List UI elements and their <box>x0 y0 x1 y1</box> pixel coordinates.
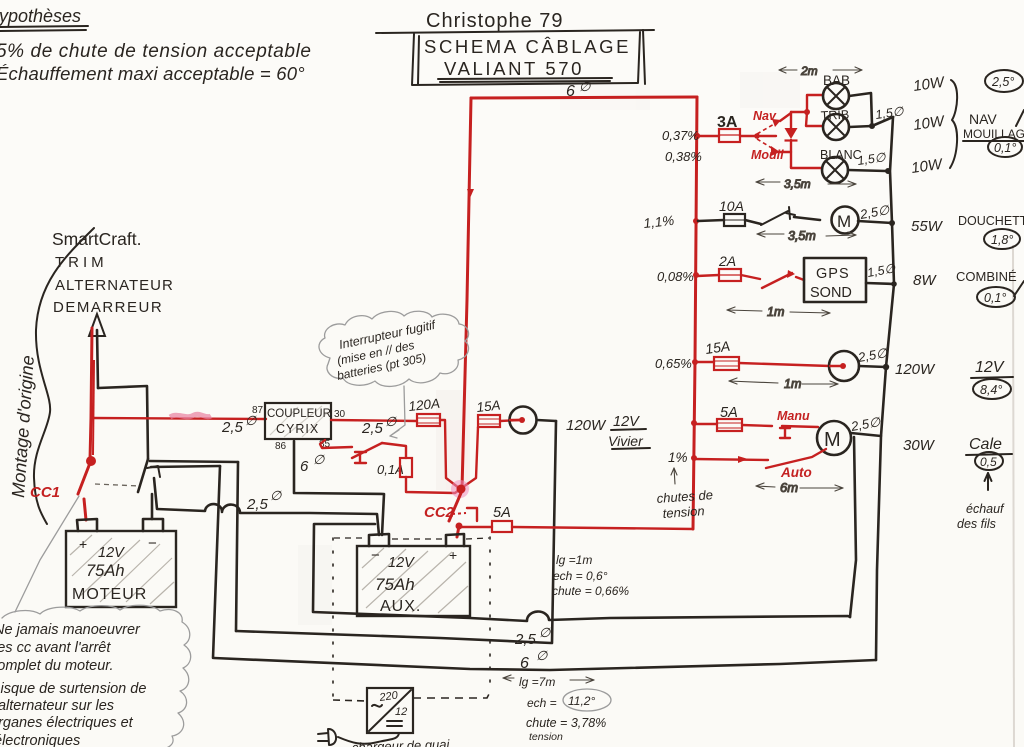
vertical black socket return <box>552 421 556 643</box>
svg-text:ech = 0,6°: ech = 0,6° <box>553 569 608 583</box>
svg-text:SmartCraft.: SmartCraft. <box>52 229 141 249</box>
svg-text:Vivier: Vivier <box>608 433 644 449</box>
switch moteur minus <box>138 459 160 519</box>
label chutes de tension <box>656 487 713 521</box>
dashed quai box right vertical <box>489 537 491 692</box>
svg-text:échauf: échauf <box>966 502 1005 516</box>
svg-text:lg =7m: lg =7m <box>519 675 555 689</box>
fuse F1 3A <box>717 114 740 142</box>
V3 vertical left <box>236 462 238 631</box>
svg-text:TRIM: TRIM <box>55 254 108 271</box>
svg-text:8,4°: 8,4° <box>980 383 1002 397</box>
svg-text:120W: 120W <box>566 417 607 434</box>
dim 3,5m row2 <box>757 229 856 243</box>
fuse F5 5A manu <box>694 419 742 431</box>
svg-text:organes électriques et: organes électriques et <box>0 715 134 731</box>
fuse 120A <box>408 396 441 426</box>
margin slash marks <box>1014 110 1024 296</box>
svg-text:DEMARREUR: DEMARREUR <box>53 299 163 316</box>
svg-text:AUX.: AUX. <box>380 598 421 615</box>
label NAV MOUILLAGE <box>963 111 1024 141</box>
label échauf des fils <box>957 502 1005 531</box>
switch douchette <box>745 207 820 225</box>
svg-text:8W: 8W <box>913 272 937 289</box>
wire M1 to bus <box>858 221 892 223</box>
dashed quai box top <box>334 538 489 539</box>
manu blade to M2 <box>782 426 818 427</box>
svg-text:30W: 30W <box>903 437 936 454</box>
svg-text:2m: 2m <box>800 64 818 78</box>
dashed to transformer right <box>413 692 490 698</box>
CC2 blade <box>449 493 461 521</box>
svg-text:1m: 1m <box>767 305 784 319</box>
svg-text:BLANC: BLANC <box>820 148 862 162</box>
wire red trunk right vertical <box>693 97 697 529</box>
cloud interrupteur fugitif <box>319 311 469 386</box>
svg-text:5% de chute de tension accepta: 5% de chute de tension acceptable <box>0 41 312 62</box>
svg-text:1m: 1m <box>784 377 801 391</box>
title Christophe 79 <box>376 10 654 33</box>
svg-text:COUPLEUR: COUPLEUR <box>267 408 331 420</box>
svg-text:−: − <box>148 535 157 552</box>
svg-text:12V: 12V <box>98 545 125 561</box>
socket 12V right column <box>829 351 859 381</box>
svg-text:0,38%: 0,38% <box>665 149 702 164</box>
node CC1 <box>86 456 96 466</box>
pointer cloud to switch 85 <box>390 386 405 438</box>
arrow up 1% <box>671 468 677 484</box>
svg-text:CYRIX: CYRIX <box>276 422 319 436</box>
svg-text:VALIANT 570: VALIANT 570 <box>444 58 584 79</box>
label Vivier underlined <box>608 433 650 449</box>
node M1 on bus <box>889 220 895 226</box>
label 2,5∅ wire <box>246 488 282 513</box>
dim 1m row4 <box>729 377 838 391</box>
svg-text:6: 6 <box>520 655 529 672</box>
svg-text:électroniques: électroniques <box>0 733 80 747</box>
svg-text:NAV: NAV <box>969 111 997 127</box>
label 12V right underlined <box>971 359 1013 378</box>
svg-text:ech =: ech = <box>527 696 557 710</box>
svg-text:1%: 1% <box>668 450 688 465</box>
red main horizontal to coupleur <box>91 418 266 419</box>
node TRIB/BAB return <box>869 123 875 129</box>
svg-text:0,08%: 0,08% <box>657 269 694 284</box>
svg-text:0,1°: 0,1° <box>994 141 1016 155</box>
wire trunk to auto switch <box>694 459 768 460</box>
switch 85 contact <box>355 452 366 463</box>
svg-text:complet du moteur.: complet du moteur. <box>0 658 114 674</box>
label 2,5∅ left of coupleur <box>221 413 257 436</box>
node trunk row4 <box>692 359 698 365</box>
cloud text interrupteur fugitif <box>336 318 438 383</box>
wire fuse 15A to socket <box>739 363 830 366</box>
svg-text:75Ah: 75Ah <box>375 575 415 594</box>
battery MOTEUR terminals <box>77 519 97 531</box>
svg-text:Manu: Manu <box>777 409 810 423</box>
node trunk manu row <box>691 420 697 426</box>
svg-text:2,5: 2,5 <box>221 419 244 436</box>
svg-text:3A: 3A <box>717 114 738 131</box>
svg-text:2A: 2A <box>718 253 736 269</box>
line A bottom <box>236 631 551 643</box>
circled 0,1° <box>988 137 1022 157</box>
svg-text:lg =1m: lg =1m <box>556 553 592 567</box>
svg-text:DOUCHETTE: DOUCHETTE <box>958 214 1024 228</box>
dashed quai box left vertical <box>332 538 334 698</box>
svg-text:TRIB: TRIB <box>820 108 849 123</box>
wire trunk to fuse 3A <box>697 135 719 137</box>
dashed mechanical link CC1 <box>95 484 140 486</box>
fuse F4 15A <box>696 357 739 370</box>
label ech= 11,2° circled <box>527 689 611 711</box>
wire M2 to bus <box>851 433 881 436</box>
svg-text:3,5m: 3,5m <box>784 177 811 191</box>
wire diode to BLANC <box>791 167 822 168</box>
node CC2 junction <box>457 485 466 494</box>
wire fuse 3A to selector <box>740 135 757 137</box>
svg-text:chute = 0,66%: chute = 0,66% <box>552 584 629 598</box>
svg-text:GPS: GPS <box>816 266 850 282</box>
circled 2,5° <box>985 70 1023 92</box>
node lamp feed <box>804 109 810 115</box>
node GPS on bus <box>891 281 897 287</box>
svg-text:SCHEMA CÂBLAGE: SCHEMA CÂBLAGE <box>424 36 631 57</box>
svg-text:87: 87 <box>252 405 264 416</box>
svg-text:1,8°: 1,8° <box>991 233 1013 247</box>
wire red trunk top horizontal <box>471 97 697 98</box>
paper right edge shadow <box>1013 245 1014 747</box>
svg-text:55W: 55W <box>911 218 944 235</box>
wire 5A fuse to trunk bottom <box>512 527 693 529</box>
node CC2 bottom <box>456 523 463 530</box>
svg-text:6: 6 <box>300 458 309 475</box>
fuse 0,1A <box>377 458 412 477</box>
transformer 220/12 <box>367 688 413 733</box>
node trunk auto row <box>691 455 697 461</box>
svg-text:+: + <box>449 547 457 563</box>
pointer line to CC1 <box>15 496 79 612</box>
pink scribble on wire <box>170 414 211 417</box>
V4 vertical left outer <box>213 466 220 658</box>
wire mouillage contact to diode line <box>779 151 791 153</box>
svg-text:0,5: 0,5 <box>980 455 997 469</box>
red arrow mark on left trunk <box>467 189 474 198</box>
V1 black return from M2 down to line A/L1 <box>850 437 856 617</box>
brace nav group <box>950 80 957 168</box>
svg-text:12V: 12V <box>388 555 415 571</box>
dim 2m row1 <box>779 64 862 78</box>
H1 wire switch to V3 <box>150 461 238 462</box>
lamp BLANC <box>820 148 862 183</box>
svg-text:M: M <box>824 429 841 451</box>
red wire coupleur to 120A fuse <box>331 420 417 421</box>
svg-text:BAB: BAB <box>823 73 850 88</box>
CC1 stub to battery + <box>84 499 86 520</box>
svg-text:CC1: CC1 <box>30 484 60 501</box>
CC2 pink smudge <box>451 480 469 498</box>
wire GPS to bus <box>866 283 894 284</box>
wire node to BAB and TRIB <box>791 95 823 126</box>
svg-text:Nav: Nav <box>753 109 777 123</box>
auto blade <box>766 449 826 468</box>
dim 6m <box>756 480 843 495</box>
title box SCHEMA CABLAGE VALIANT 570 <box>412 30 645 85</box>
wire BLANC return <box>848 170 886 171</box>
svg-text:COMBINÉ: COMBINÉ <box>956 269 1017 284</box>
lamp TRIB <box>820 108 849 140</box>
COUPLEUR CYRIX box <box>252 403 346 452</box>
red stub to AUX plus <box>457 526 459 537</box>
switch GPS <box>741 270 804 288</box>
svg-text:Mouil: Mouil <box>751 148 784 162</box>
svg-text:MOTEUR: MOTEUR <box>72 586 147 603</box>
arrow up to 0,5 <box>985 473 992 490</box>
node trunk row1 <box>694 133 700 139</box>
svg-text:15A: 15A <box>476 398 501 415</box>
svg-text:Hypothèses: Hypothèses <box>0 6 81 26</box>
red wire 85 pin to switch <box>320 440 352 448</box>
svg-text:Cale: Cale <box>969 436 1002 453</box>
svg-text:∅: ∅ <box>270 488 282 503</box>
battery MOTEUR box <box>66 531 176 607</box>
svg-text:∅: ∅ <box>579 79 591 94</box>
brace montage d'origine <box>34 228 94 524</box>
wire 15A fuse to socket vivier <box>500 420 520 421</box>
cloud bottom-left notes <box>2 605 191 747</box>
svg-text:11,2°: 11,2° <box>568 694 595 708</box>
label 12V vivier underlined <box>611 414 646 430</box>
svg-text:1,1%: 1,1% <box>643 213 675 231</box>
circled 0,1° combiné <box>977 287 1015 307</box>
wire nav contact to lamp node <box>780 113 791 121</box>
svg-text:M: M <box>837 212 851 231</box>
wire socket vivier to vertical <box>537 420 556 421</box>
svg-text:chute = 3,78%: chute = 3,78% <box>526 716 606 730</box>
svg-text:120W: 120W <box>895 361 936 378</box>
svg-text:3,5m: 3,5m <box>788 229 816 243</box>
svg-text:0,1°: 0,1° <box>984 291 1006 305</box>
svg-text:Auto: Auto <box>780 465 812 480</box>
bus black right vertical <box>876 117 894 660</box>
H2 wire switch to V4 <box>151 466 220 467</box>
svg-text:des fils: des fils <box>957 517 996 531</box>
heading Hypothèses <box>0 6 88 31</box>
svg-text:6m: 6m <box>780 480 798 495</box>
line B bottom <box>214 658 876 670</box>
svg-text:+: + <box>79 536 87 552</box>
battery AUX box <box>357 546 470 616</box>
svg-text:les cc avant l'arrêt: les cc avant l'arrêt <box>0 640 111 656</box>
selector switch nav/mouillage <box>751 109 784 162</box>
wire to 0,1A fuse <box>382 443 406 458</box>
wire 120A fuse corner down to CC2 junction <box>440 420 459 488</box>
svg-text:∅: ∅ <box>385 414 397 429</box>
fuse F3 2A <box>718 253 741 281</box>
wire BAB return <box>849 93 872 125</box>
svg-text:2,5: 2,5 <box>246 496 269 513</box>
CC2 dashed contact <box>452 513 466 514</box>
wire trunk to fuse 10A <box>698 220 724 221</box>
svg-text:ALTERNATEUR: ALTERNATEUR <box>55 277 174 294</box>
svg-text:∅: ∅ <box>313 452 325 467</box>
circled 1,8° <box>984 229 1020 249</box>
node trunk row3 <box>693 272 699 278</box>
notes text bottom-left <box>0 622 146 747</box>
wire fuse to manu contact <box>742 425 772 426</box>
svg-text:12V: 12V <box>613 414 640 430</box>
switch 85 blade <box>352 443 382 458</box>
svg-text:12V: 12V <box>975 359 1005 376</box>
svg-text:Risque de surtension de: Risque de surtension de <box>0 681 146 697</box>
svg-text:∅: ∅ <box>536 648 548 663</box>
wire socket to bus <box>859 366 886 367</box>
lamp BAB <box>823 73 850 109</box>
wire 15A fuse down to CC2 junction <box>463 427 478 487</box>
black arrow to engine <box>89 314 105 388</box>
svg-text:0,37%: 0,37% <box>662 128 699 143</box>
diode D1 <box>785 112 798 167</box>
svg-text:12: 12 <box>395 706 407 718</box>
circled 8,4° <box>973 379 1011 399</box>
wire red alternator vertical <box>90 328 92 460</box>
wire 2,5 moteur minus to AUX minus <box>154 478 379 535</box>
fuse F2 10A <box>719 198 745 226</box>
label 6∅ pin86 <box>300 452 325 475</box>
motor M1 douchette <box>832 207 859 234</box>
wire 0,1A fuse to CC2 junction <box>406 477 459 493</box>
svg-text:Échauffement maxi acceptable =: Échauffement maxi acceptable = 60° <box>0 63 305 84</box>
svg-text:∅: ∅ <box>539 625 551 640</box>
battery AUX terminals <box>369 534 389 546</box>
circled 0,5 <box>975 452 1003 470</box>
socket vivier <box>510 407 537 434</box>
dim 3,5m row1 <box>756 177 856 191</box>
label lg=1m ech chute pencil <box>552 553 629 598</box>
fuse 15A vivier <box>476 398 501 427</box>
svg-text:SOND: SOND <box>810 285 852 301</box>
CC1 blade <box>78 463 90 494</box>
node BLANC on bus <box>885 168 891 174</box>
node socket on bus <box>883 364 889 370</box>
svg-text:2,5: 2,5 <box>361 420 384 437</box>
label 2,5∅ bottom <box>514 625 551 648</box>
wire 86 pin down to AUX minus <box>294 441 384 535</box>
svg-text:tension: tension <box>529 731 563 743</box>
svg-text:tension: tension <box>662 503 705 521</box>
svg-text:75Ah: 75Ah <box>86 562 125 580</box>
svg-text:−: − <box>371 547 380 564</box>
manu contact symbol <box>780 428 790 438</box>
dim lg=7m pencil <box>503 675 594 683</box>
label 6∅ top <box>566 79 591 100</box>
node trunk row2 <box>693 218 699 224</box>
svg-text:5A: 5A <box>493 505 511 521</box>
paper smudges <box>298 72 800 625</box>
svg-text:6: 6 <box>566 83 575 100</box>
dim 1m row3 <box>727 305 830 319</box>
svg-text:Christophe 79: Christophe 79 <box>426 10 564 32</box>
GPS SOND box <box>804 258 866 302</box>
svg-text:10A: 10A <box>719 198 744 214</box>
svg-text:86: 86 <box>275 441 287 452</box>
motor M2 cale <box>817 421 851 455</box>
wire return to bus top <box>872 117 893 126</box>
fuse 5A aux <box>492 505 512 532</box>
label 6∅ bottom <box>520 648 548 672</box>
wire CC2 to 5A fuse <box>461 526 492 528</box>
wire trunk to fuse 2A <box>697 275 719 276</box>
wire red trunk left vertical <box>462 98 471 489</box>
svg-text:2,5°: 2,5° <box>991 75 1014 89</box>
svg-text:2,5: 2,5 <box>514 631 537 648</box>
svg-text:Ne jamais manoeuvrer: Ne jamais manoeuvrer <box>0 622 141 638</box>
line L1 bottom (AUX loop) <box>313 524 850 621</box>
label SmartCraft TRIM ALTERNATEUR DEMARREUR <box>52 229 174 316</box>
svg-text:l'alternateur sur les: l'alternateur sur les <box>0 698 114 714</box>
shore plug <box>318 729 399 745</box>
label Cale underlined <box>966 436 1012 455</box>
wire black elbow from arrow <box>98 386 148 459</box>
svg-text:0,65%: 0,65% <box>655 356 692 371</box>
label 2,5∅ right of coupleur <box>361 414 397 437</box>
wire TRIB return <box>849 126 872 127</box>
dashed to transformer left <box>333 700 366 701</box>
svg-text:30: 30 <box>334 409 346 420</box>
